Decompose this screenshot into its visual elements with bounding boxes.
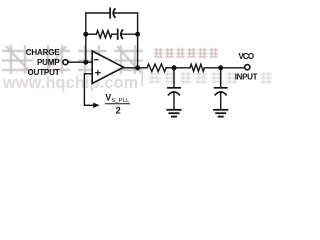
op-amp U1 [92,51,123,83]
wire branch2 right [122,33,137,35]
shunt capacitor C4 branch [220,68,222,87]
node feedback left top [83,32,88,37]
wire feedback left vertical [85,13,87,62]
node shunt 1 [172,65,177,70]
wire op-amp output [124,67,148,69]
label CHARGE PUMP OUTPUT [26,48,61,77]
op-amp plus sign [96,72,100,74]
label VS_PLL / 2 [105,92,130,115]
shunt capacitor C3 branch [173,68,175,87]
svg-text:VCO: VCO [238,52,254,61]
svg-text:PUMP: PUMP [37,58,60,67]
svg-text:OUTPUT: OUTPUT [28,68,60,77]
op-amp minus sign [95,59,98,61]
resistor R4 [190,64,204,71]
circuit in black [63,8,250,116]
junction dots [83,32,223,108]
svg-text:S_PLL: S_PLL [111,98,130,104]
resistor R2 feedback [96,31,112,38]
svg-text:CHARGE: CHARGE [26,48,61,57]
watermark divider [141,72,143,87]
wire branch2 mid [112,33,117,35]
wire inverting input [68,61,92,63]
ground 2 [214,109,227,111]
label VCO INPUT [235,52,258,81]
node feedback right top [135,32,140,37]
wire to VCO terminal [204,67,244,69]
ground 1 [167,109,180,111]
node shunt 2 [218,65,223,70]
wire between resistors [166,67,190,69]
svg-text:INPUT: INPUT [235,72,258,81]
resistor R3 [147,64,166,72]
svg-text:2: 2 [116,106,121,116]
node op-amp output [135,65,140,70]
watermark left big characters (simulated CJK strokes) [2,45,143,74]
wire noninverting input [84,74,93,106]
terminal VCO input [245,65,250,70]
wire top branch right [115,12,138,14]
terminal charge pump output [63,60,68,65]
node inverting input [83,60,88,65]
svg-text:www.hqchip.com: www.hqchip.com [2,74,138,92]
watermark right line1 (simulated CJK) [154,48,218,58]
arrowhead VS_PLL/2 [93,103,99,108]
wire branch2 left [86,33,97,35]
wire right feedback vertical [137,13,139,68]
capacitor C1 top branch [109,8,111,18]
capacitor C2 feedback [117,29,119,39]
wire top branch left [86,12,110,14]
watermark right line2 (simulated CJK) [149,72,272,84]
